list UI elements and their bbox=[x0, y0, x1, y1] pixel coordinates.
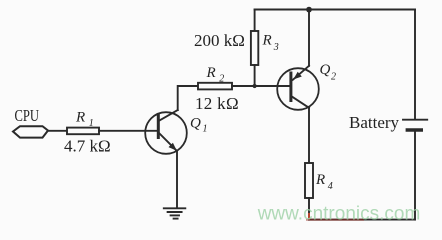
svg-text:2: 2 bbox=[219, 74, 224, 85]
svg-text:Q: Q bbox=[320, 62, 331, 78]
wire R2 to Q2 base bbox=[232, 85, 291, 87]
svg-text:1: 1 bbox=[203, 124, 208, 135]
wire Q1 collector to R2 bbox=[178, 86, 198, 110]
wire battery top bbox=[414, 10, 416, 119]
svg-text:4.7 kΩ: 4.7 kΩ bbox=[64, 137, 111, 156]
wire CPU to R1 bbox=[48, 130, 67, 132]
ground bbox=[164, 208, 186, 218]
resistor R4 bbox=[305, 163, 313, 198]
transistor Q2 bbox=[277, 66, 319, 110]
svg-text:R: R bbox=[75, 110, 85, 126]
node CPU bbox=[13, 126, 48, 137]
wire R4 bottom lead bbox=[308, 198, 310, 220]
svg-text:1: 1 bbox=[89, 118, 94, 129]
resistor R1 bbox=[67, 128, 99, 135]
resistor R3 bbox=[251, 31, 258, 65]
svg-text:R: R bbox=[262, 33, 272, 49]
wire R3 bottom lead bbox=[254, 65, 256, 86]
wire R3 top lead bbox=[254, 10, 256, 32]
wire battery bottom bbox=[414, 132, 416, 220]
svg-text:2: 2 bbox=[331, 72, 336, 83]
resistor R2 bbox=[198, 83, 232, 90]
svg-text:200 kΩ: 200 kΩ bbox=[194, 31, 245, 50]
junction top rail bbox=[306, 7, 312, 13]
svg-text:www.cntronics.com: www.cntronics.com bbox=[257, 203, 421, 224]
wire Q2 collector to R4 bbox=[308, 108, 310, 163]
svg-text:Q: Q bbox=[190, 116, 201, 132]
battery negative plate bbox=[407, 128, 421, 131]
wire R1 to Q1 base bbox=[99, 130, 158, 132]
label Q2 bbox=[320, 62, 337, 83]
svg-text:12 kΩ: 12 kΩ bbox=[195, 94, 239, 113]
battery positive plate bbox=[403, 119, 427, 121]
svg-text:R: R bbox=[206, 65, 216, 81]
wire bottom rail bbox=[309, 219, 415, 221]
svg-text:R: R bbox=[315, 172, 325, 188]
label R3 bbox=[262, 33, 279, 54]
wire top rail bbox=[255, 9, 415, 11]
wire Q1 emitter down bbox=[176, 151, 178, 208]
transistor Q1 bbox=[145, 110, 187, 154]
junction base node bbox=[253, 84, 257, 88]
svg-text:4: 4 bbox=[328, 181, 333, 192]
svg-text:CPU: CPU bbox=[15, 106, 40, 125]
red corner mark bbox=[306, 213, 364, 220]
label R2 bbox=[206, 65, 225, 85]
label R1 bbox=[75, 110, 94, 130]
svg-text:3: 3 bbox=[273, 42, 279, 53]
wire rail down to Q2 emitter bbox=[308, 10, 310, 66]
label Q1 bbox=[190, 116, 208, 135]
svg-text:Battery: Battery bbox=[349, 113, 400, 132]
label R4 bbox=[315, 172, 333, 192]
